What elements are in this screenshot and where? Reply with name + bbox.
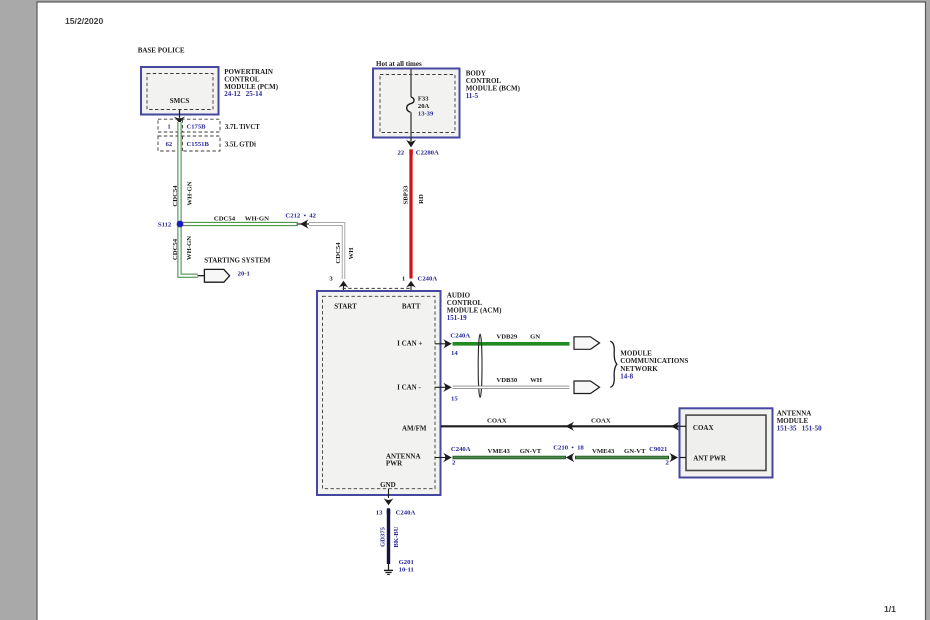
- svg-text:COAX: COAX: [693, 424, 714, 432]
- svg-text:24-12 25-14: 24-12 25-14: [224, 90, 262, 98]
- svg-text:62: 62: [166, 141, 173, 148]
- svg-text:VDB29: VDB29: [496, 333, 517, 340]
- svg-text:BASE POLICE: BASE POLICE: [138, 47, 185, 55]
- fuse F33: [407, 69, 434, 138]
- wire CDC54 WH-GN horizontal: [180, 215, 298, 224]
- svg-text:RD: RD: [418, 194, 425, 204]
- svg-text:C9021: C9021: [649, 446, 667, 453]
- svg-text:WH: WH: [530, 377, 543, 384]
- module ANTENNA: [680, 408, 823, 477]
- svg-text:CDC54: CDC54: [214, 215, 236, 222]
- svg-text:15/2/2020: 15/2/2020: [65, 16, 103, 26]
- svg-text:BATT: BATT: [402, 302, 421, 310]
- svg-text:1/1: 1/1: [884, 604, 896, 614]
- wire CDC54 WH-GN to starting system: [172, 224, 198, 276]
- svg-text:C212 • 42: C212 • 42: [285, 213, 316, 220]
- svg-text:VDB30: VDB30: [496, 377, 517, 384]
- svg-text:I CAN +: I CAN +: [397, 340, 422, 348]
- svg-text:CDC54: CDC54: [172, 238, 179, 260]
- svg-text:CDC54: CDC54: [335, 242, 342, 264]
- svg-text:11-5: 11-5: [466, 92, 479, 100]
- connector C210 pin 18: [553, 444, 584, 462]
- module ACM: [317, 291, 502, 495]
- svg-text:VME43: VME43: [592, 448, 615, 455]
- svg-text:3.7L TiVCT: 3.7L TiVCT: [225, 124, 260, 131]
- connector C9021 pin 2: [649, 446, 678, 466]
- connector dashed line above ACM: [343, 287, 412, 289]
- brace and network text: [610, 341, 688, 387]
- svg-text:NETWORK: NETWORK: [620, 365, 658, 373]
- svg-text:C175B: C175B: [187, 124, 207, 131]
- svg-text:C240A: C240A: [396, 509, 416, 516]
- ground G201: [384, 559, 414, 575]
- svg-text:1: 1: [167, 124, 170, 131]
- svg-text:13: 13: [376, 509, 383, 516]
- wire VME43 GN-VT segment 1: [453, 448, 567, 457]
- svg-text:10-11: 10-11: [399, 567, 414, 574]
- svg-text:C240A: C240A: [451, 446, 471, 453]
- wire VDB30 WH: [453, 377, 570, 388]
- wire COAX: [441, 417, 680, 431]
- svg-text:C240A: C240A: [418, 275, 438, 282]
- svg-text:15: 15: [451, 395, 458, 402]
- svg-text:I CAN -: I CAN -: [397, 384, 421, 392]
- svg-text:C240A: C240A: [450, 333, 470, 340]
- svg-text:13-39: 13-39: [418, 111, 434, 118]
- svg-text:SMCS: SMCS: [170, 97, 190, 105]
- wire PCM to connector: [174, 110, 185, 124]
- svg-text:COAX: COAX: [487, 417, 507, 424]
- twisted pair loop: [478, 334, 482, 397]
- svg-text:GN-VT: GN-VT: [520, 448, 542, 455]
- wire VDB29 GN: [453, 333, 570, 344]
- splice S112: [158, 221, 184, 229]
- pin 15 I CAN-: [435, 383, 458, 403]
- svg-text:WH-GN: WH-GN: [186, 236, 193, 260]
- svg-text:VME43: VME43: [488, 448, 511, 455]
- connector C1551B: [158, 136, 256, 151]
- svg-text:F33: F33: [418, 95, 429, 102]
- svg-text:GN-VT: GN-VT: [624, 448, 646, 455]
- svg-text:151-35 151-50: 151-35 151-50: [777, 424, 822, 432]
- svg-text:151-19: 151-19: [447, 314, 467, 322]
- wire SBP33 RD: [403, 151, 425, 279]
- svg-text:C210 • 18: C210 • 18: [553, 444, 584, 451]
- wire CDC54 WH to START: [309, 224, 355, 279]
- wire CDC54 WH-GN vertical: [172, 122, 193, 226]
- svg-text:G201: G201: [399, 559, 414, 566]
- svg-text:SBP33: SBP33: [403, 185, 410, 205]
- svg-text:C1551B: C1551B: [187, 141, 210, 148]
- pin 14 I CAN+: [435, 333, 470, 357]
- pin 2 ANTENNA PWR: [435, 446, 471, 466]
- svg-text:WH-GN: WH-GN: [245, 215, 269, 222]
- svg-text:WH: WH: [348, 247, 355, 260]
- off-page arrow VDB29: [574, 337, 600, 350]
- svg-text:20-1: 20-1: [238, 271, 250, 278]
- svg-text:COAX: COAX: [591, 417, 611, 424]
- pin GND C240A pin 13: [376, 489, 416, 517]
- svg-text:BK-BU: BK-BU: [393, 526, 400, 547]
- module PCM: [141, 67, 279, 115]
- svg-text:PWR: PWR: [386, 459, 403, 467]
- pin 3 START arrow: [329, 275, 348, 296]
- svg-text:1: 1: [402, 275, 405, 282]
- svg-text:C2280A: C2280A: [416, 149, 439, 156]
- svg-text:14: 14: [451, 350, 458, 357]
- svg-text:START: START: [334, 302, 357, 310]
- svg-text:3.5L GTDi: 3.5L GTDi: [225, 142, 256, 149]
- connector C212 pin 42: [285, 213, 316, 229]
- svg-text:ANT PWR: ANT PWR: [693, 455, 727, 463]
- connector C240A BATT pin 1: [402, 275, 438, 296]
- svg-text:S112: S112: [158, 221, 172, 228]
- connector C175B: [158, 119, 260, 132]
- svg-text:CDC54: CDC54: [172, 185, 179, 207]
- svg-text:STARTING SYSTEM: STARTING SYSTEM: [204, 257, 271, 265]
- off-page arrow VDB30: [574, 381, 600, 394]
- svg-text:Hot at all times: Hot at all times: [376, 60, 422, 68]
- module BCM: [373, 69, 521, 138]
- connector C2280A pin 22: [398, 138, 440, 157]
- wire GD375 BK-BU: [380, 510, 400, 564]
- wire VME43 GN-VT segment 2: [575, 448, 669, 457]
- svg-text:22: 22: [398, 149, 405, 156]
- svg-text:WH-GN: WH-GN: [186, 181, 193, 205]
- svg-text:GND: GND: [380, 481, 396, 489]
- svg-text:AM/FM: AM/FM: [402, 425, 427, 433]
- svg-text:GN: GN: [530, 333, 540, 340]
- svg-text:20A: 20A: [418, 103, 430, 110]
- svg-text:GD375: GD375: [380, 526, 387, 547]
- svg-text:14-8: 14-8: [620, 373, 633, 381]
- starting system off-page arrow 20-1: [198, 257, 271, 283]
